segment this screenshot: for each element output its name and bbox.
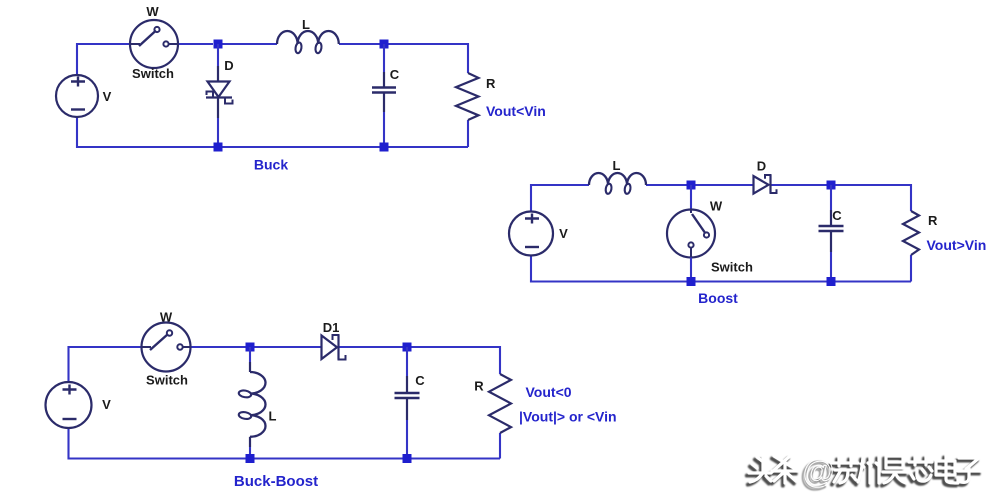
wire: buck node A to inductor	[218, 43, 277, 45]
watermark shadow (头条 @苏州昊芯电子)	[747, 456, 979, 492]
wire: buck-boost inductor to bottom node	[249, 437, 251, 447]
voltage source V1 (buck)	[56, 75, 98, 117]
wire: boost inductor to node C	[646, 184, 691, 186]
node F (buck-boost diode-cap junction)	[403, 343, 412, 352]
node C (boost L-switch junction)	[687, 181, 696, 190]
voltage source V2 (boost)	[509, 212, 553, 256]
svg-text:L: L	[269, 409, 277, 424]
node E (buck-boost switch-L junction)	[246, 343, 255, 352]
wire: buck resistor to bottom rail	[467, 120, 469, 147]
wire: buck-boost top rail left segment	[69, 347, 142, 382]
resistor R (buck-boost load)	[489, 374, 511, 433]
wire: buck bottom rail	[77, 117, 468, 147]
svg-text:W: W	[160, 310, 173, 325]
watermark face (头条 @苏州昊芯电子)	[749, 453, 981, 489]
svg-text:V: V	[103, 89, 112, 104]
svg-text:Vout>Vin: Vout>Vin	[927, 237, 987, 253]
wire: boost capacitor to bottom node	[830, 231, 832, 252]
svg-text:Switch: Switch	[132, 66, 174, 81]
wire: boost node C to diode	[691, 184, 753, 186]
svg-text:Vout<0: Vout<0	[526, 384, 572, 400]
svg-text:D: D	[757, 159, 766, 174]
wire: buck top rail switch to node A	[178, 43, 213, 45]
wire: boost node C down to switch	[690, 185, 692, 210]
wire: buck-boost bottom rail	[69, 428, 501, 459]
wire: buck node B to right rail down to resistor	[384, 44, 468, 73]
inductor L (buck-boost, vertical)	[238, 372, 265, 437]
svg-text:Buck-Boost: Buck-Boost	[234, 473, 318, 490]
wire: boost bottom rail	[531, 256, 911, 282]
wire: buck node B down to capacitor	[383, 44, 385, 72]
switch W (buck-boost)	[142, 323, 191, 372]
node: buck-boost capacitor bottom	[403, 454, 412, 463]
wire: buck inductor to node B	[339, 43, 384, 45]
diode D (boost, schottky)	[754, 175, 777, 194]
diode D1 (buck-boost, schottky)	[322, 335, 346, 360]
voltage source V3 (buck-boost)	[46, 382, 92, 428]
wire: buck-boost diode to node F	[339, 346, 407, 348]
node A (buck switch-diode junction)	[214, 40, 223, 49]
wire: boost node D down to capacitor	[830, 185, 832, 210]
svg-text:D1: D1	[323, 320, 340, 335]
wire: buck top rail left segment	[77, 44, 130, 75]
svg-text:L: L	[302, 17, 310, 32]
wire: buck diode to bottom node	[217, 98, 219, 119]
svg-text:D: D	[224, 58, 233, 73]
svg-text:Switch: Switch	[146, 373, 188, 388]
svg-text:C: C	[415, 373, 425, 388]
wire: buck-boost capacitor to bottom node	[406, 398, 408, 420]
svg-text:R: R	[486, 76, 496, 91]
node: buck diode bottom	[214, 143, 223, 152]
node B (buck LC junction)	[380, 40, 389, 49]
svg-text:V: V	[102, 397, 111, 412]
node D (boost diode-cap junction)	[827, 181, 836, 190]
svg-text:Boost: Boost	[698, 290, 738, 306]
wire: buck node A down to diode	[217, 44, 219, 66]
wire: buck capacitor to bottom node	[383, 93, 385, 113]
svg-text:Switch: Switch	[711, 260, 753, 275]
wire: boost resistor to bottom rail	[910, 255, 912, 282]
wire: buck-boost node E to diode	[250, 346, 321, 348]
wire: buck-boost node E down to inductor	[249, 347, 251, 362]
capacitor C (buck)	[372, 88, 396, 93]
wire: buck-boost resistor to bottom rail	[499, 433, 501, 459]
diode D (buck freewheeling, schottky)	[206, 82, 233, 104]
wire: buck-boost node F down to capacitor	[406, 347, 408, 376]
switch W (buck)	[130, 20, 178, 68]
svg-text:C: C	[832, 208, 842, 223]
resistor R (buck load)	[456, 73, 479, 120]
svg-text:Buck: Buck	[254, 157, 288, 173]
capacitor C (boost)	[819, 226, 844, 231]
wire: buck-boost node F to right rail down to resistor	[407, 347, 500, 374]
inductor L (buck)	[277, 31, 339, 54]
node: boost switch bottom	[687, 277, 696, 286]
svg-text:C: C	[390, 67, 400, 82]
node: boost capacitor bottom	[827, 277, 836, 286]
svg-text:W: W	[146, 4, 159, 19]
svg-text:|Vout|> or <Vin: |Vout|> or <Vin	[519, 409, 617, 425]
wire: boost top rail left segment	[531, 185, 589, 212]
node: buck capacitor bottom	[380, 143, 389, 152]
svg-text:R: R	[474, 379, 484, 394]
svg-text:W: W	[710, 199, 723, 214]
capacitor C (buck-boost)	[395, 393, 420, 398]
svg-text:R: R	[928, 213, 938, 228]
wire: boost switch to bottom node	[690, 258, 692, 282]
switch W (boost)	[667, 210, 715, 258]
wire: boost node D to right rail down to resistor	[831, 185, 911, 211]
wire: buck-boost switch to node E	[191, 346, 251, 348]
svg-text:L: L	[613, 158, 621, 173]
svg-text:Vout<Vin: Vout<Vin	[486, 103, 546, 119]
node: buck-boost inductor bottom	[246, 454, 255, 463]
inductor L (boost)	[589, 173, 646, 194]
resistor R (boost load)	[903, 211, 919, 255]
svg-text:V: V	[559, 226, 568, 241]
wire: boost diode to node D	[771, 184, 831, 186]
